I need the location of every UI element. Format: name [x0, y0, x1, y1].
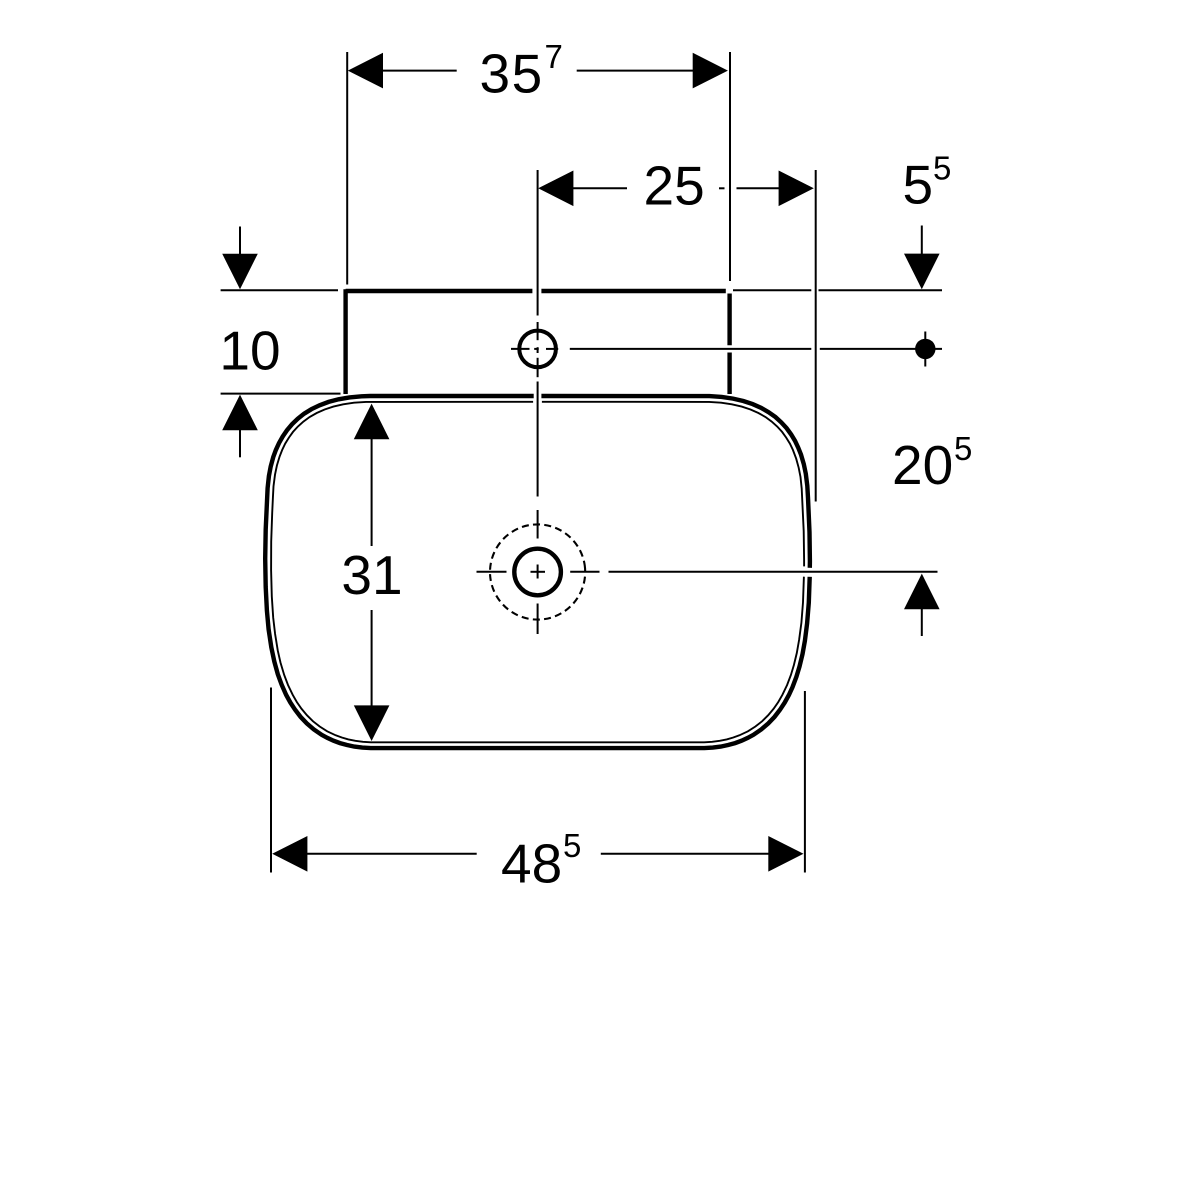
- dim 35.7 left extension: [346, 52, 348, 285]
- svg-text:31: 31: [341, 544, 402, 606]
- svg-text:25: 25: [644, 155, 705, 217]
- dim 35.7 line right: [577, 70, 694, 72]
- 10-dim up arrow: [222, 395, 258, 431]
- dim 25 line right: [737, 187, 780, 189]
- drain datum line: [609, 571, 938, 573]
- tap deck rectangle: [346, 289, 730, 394]
- drain dashed circle: [484, 518, 592, 626]
- basin inner rim line: [271, 402, 804, 743]
- dim 35.7 line left: [381, 70, 457, 72]
- dim 31 line lower: [371, 610, 373, 706]
- dot tick: [924, 332, 926, 367]
- drain level up arrow: [904, 574, 940, 610]
- svg-text:10: 10: [219, 320, 280, 382]
- svg-text:20: 20: [892, 434, 953, 496]
- svg-text:5: 5: [903, 154, 934, 216]
- 5.5 down arrow: [921, 226, 923, 256]
- vertical centerline segments: [537, 170, 539, 634]
- dim 25 line left: [572, 187, 627, 189]
- faucet datum dot: [915, 339, 935, 359]
- svg-text:35: 35: [480, 43, 544, 105]
- faucet hole: [519, 331, 556, 368]
- drain crosshair dashes: [477, 571, 600, 573]
- dim 31 line upper: [371, 439, 373, 547]
- dim 31 bottom arrow: [354, 705, 390, 741]
- dim 48.5 right extension: [804, 691, 806, 873]
- svg-text:5: 5: [563, 827, 581, 864]
- 10-dim down arrow: [239, 227, 241, 255]
- 10-dim lower line: [221, 393, 341, 395]
- basin outer outline: [265, 396, 810, 748]
- dim 48.5 line right: [601, 853, 769, 855]
- dim 25 right extension: [815, 170, 817, 502]
- drain hole circle: [514, 549, 561, 596]
- faucet datum line to right: [570, 348, 942, 350]
- svg-text:7: 7: [545, 38, 563, 75]
- dim 31 top arrow: [354, 404, 390, 440]
- faucet crosshair horizontal dashes: [511, 348, 558, 350]
- svg-text:5: 5: [954, 430, 972, 467]
- dim 25 small dash: [719, 187, 725, 189]
- svg-text:48: 48: [501, 833, 562, 895]
- dim 48.5 left extension: [270, 688, 272, 873]
- dim 48.5 line left: [306, 853, 477, 855]
- 10-dim upper line: [221, 289, 338, 291]
- dim 35.7 right extension: [729, 52, 731, 281]
- deck top datum line right: [733, 289, 942, 291]
- svg-text:5: 5: [933, 149, 951, 186]
